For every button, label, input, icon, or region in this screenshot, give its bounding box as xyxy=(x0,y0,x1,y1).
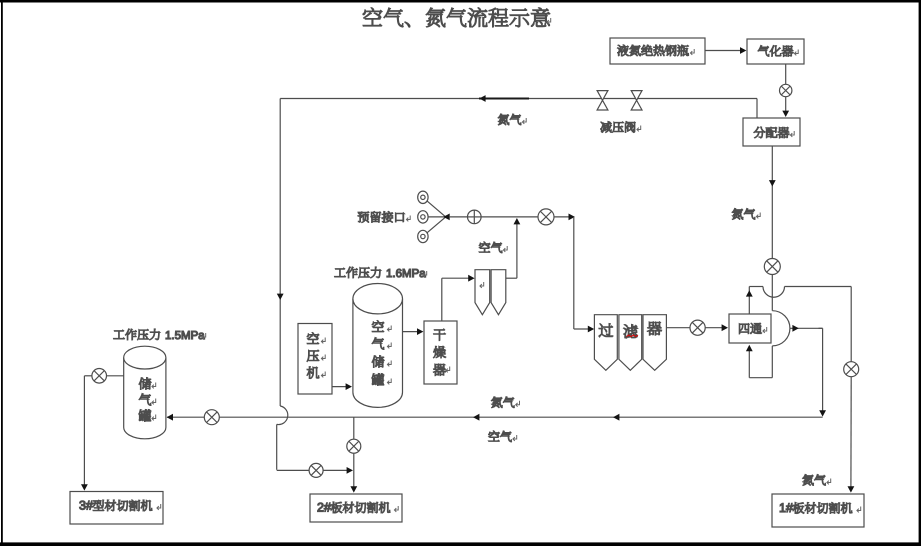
box 1#板材切割机 xyxy=(772,494,864,527)
nitrogen header pipe xyxy=(280,95,757,102)
reserved port connector middle xyxy=(428,216,446,218)
filter cell 器 xyxy=(643,315,666,371)
label 氮气 (right vertical) xyxy=(732,209,760,220)
pipe 四通 top outlet xyxy=(746,287,763,315)
label 空气 (air header) xyxy=(479,242,507,253)
label 工作压力 1.6MPa xyxy=(335,267,427,278)
reducing valve 减压阀 symbol 1 xyxy=(597,91,608,110)
box 液氮绝热钢瓶 xyxy=(610,38,705,64)
valve on pipe to 储气罐 xyxy=(204,410,219,425)
label 氮气 (1# feed) xyxy=(803,475,831,486)
pipe down to 3# machine xyxy=(81,376,88,491)
tank 空气储罐 label xyxy=(372,321,391,386)
tank 空气储罐 xyxy=(353,284,403,408)
box 四通 xyxy=(729,314,771,343)
label 氮气 (bottom pipe) xyxy=(491,397,519,408)
pipe top outlet to 1# drop xyxy=(785,287,852,362)
box 分配器 xyxy=(743,118,800,146)
pipe valve to 分配器 xyxy=(782,97,789,117)
pipe junction down to 2# machine xyxy=(350,417,357,492)
valve left of 储气罐 xyxy=(92,369,107,384)
label 预留接口 xyxy=(358,211,410,222)
pipe header down left side xyxy=(277,99,284,407)
reserved port symbol middle xyxy=(418,211,428,223)
pipe right outlet down to bottom pipe xyxy=(819,328,827,416)
tank 储气罐 xyxy=(124,346,166,439)
pipe valve down to 1# machine xyxy=(848,377,855,493)
label 空气 (bottom pipe) xyxy=(489,431,517,442)
box 气化器 xyxy=(747,39,804,64)
pipe 储气罐 to valve to 3# drop xyxy=(84,375,123,377)
nitrogen pipe below valve xyxy=(771,275,773,311)
label 工作压力 1.5MPa xyxy=(114,329,206,340)
line jump (vertical over 四通 right outlet) xyxy=(772,311,790,346)
twin filter left cell xyxy=(475,270,490,315)
box 3#型材切割机 xyxy=(70,492,163,525)
box 空压机 xyxy=(298,324,332,395)
label 氮气 (header) xyxy=(498,114,526,125)
valve on 1# machine feed xyxy=(844,362,859,377)
line jump over bottom pipe xyxy=(277,406,288,425)
pipe 四通 right outlet xyxy=(790,325,823,332)
air header pipe xyxy=(450,214,575,221)
reserved port connector top xyxy=(427,201,445,217)
air pipe down to filter xyxy=(574,217,594,333)
filter cell 过 xyxy=(594,315,617,371)
nitrogen pipe 分配器 down xyxy=(769,146,776,259)
box 干燥器 xyxy=(424,321,457,384)
pipe twin filter to air header xyxy=(506,218,521,278)
title 空气、氮气流程示意 xyxy=(363,8,551,28)
plus valve on air header xyxy=(468,210,482,224)
pipe left drop lower xyxy=(276,424,278,469)
pipe 液氮绝热钢瓶 to 气化器 xyxy=(705,47,746,54)
valve on air header xyxy=(538,209,554,225)
reserved port symbol bottom xyxy=(418,230,428,242)
filter cell 滤 xyxy=(619,315,642,371)
valve above 2# machine xyxy=(347,439,361,453)
valve on nitrogen vertical xyxy=(764,259,780,275)
pipe 分配器 up to header xyxy=(756,99,758,119)
reducing valve 减压阀 symbol 2 xyxy=(631,91,642,110)
box 2#板材切割机 xyxy=(310,494,402,522)
tank 储气罐 label xyxy=(139,378,156,422)
valve on 2# branch xyxy=(309,463,323,477)
reserved port symbol top xyxy=(418,191,428,203)
twin filter return mark xyxy=(480,282,484,288)
valve between 气化器 and 分配器 xyxy=(780,84,792,96)
pipe 干燥器 top to twin filter xyxy=(442,275,475,321)
line jump (top outlet over nitrogen vertical) xyxy=(763,287,785,298)
pipe 空气储罐 to 干燥器 xyxy=(402,328,423,335)
pipe filter to valve to 四通 xyxy=(666,324,728,331)
bottom nitrogen pipe xyxy=(167,414,823,421)
label 减压阀 xyxy=(601,121,641,132)
valve before 四通 xyxy=(690,320,705,335)
pipe 气化器 to valve xyxy=(785,64,787,84)
pipe 空压机 to 空气储罐 xyxy=(332,383,352,390)
nitrogen pipe to U-turn xyxy=(746,345,772,378)
arrow into reserved ports xyxy=(443,214,449,221)
pipe branch to 2# junction xyxy=(277,467,353,474)
reserved port connector bottom xyxy=(427,217,445,233)
twin filter right cell xyxy=(491,270,506,315)
